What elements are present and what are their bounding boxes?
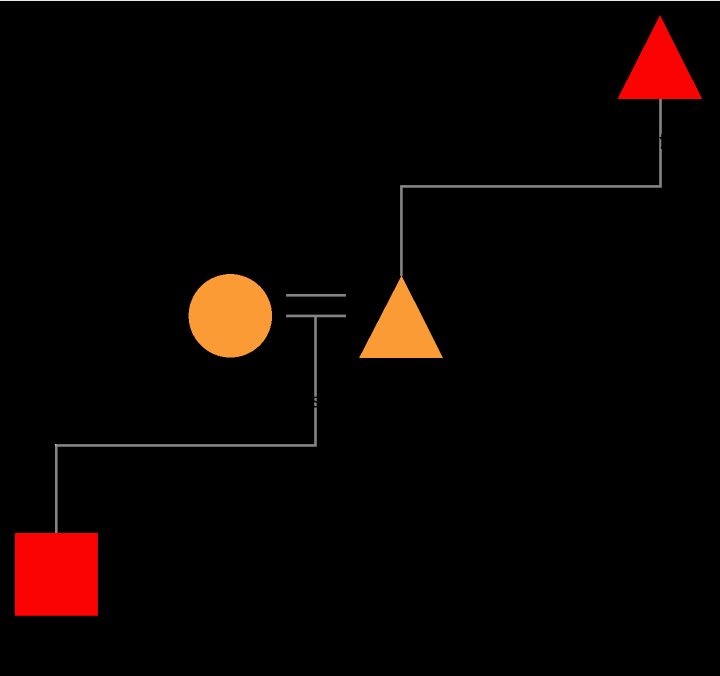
red triangle node (top right)	[618, 15, 703, 99]
edge label E1 (black text occlusion over wire)	[659, 134, 663, 149]
edge label E2: letter s (black, occluding wire)	[312, 397, 321, 408]
orange triangle node (middle)	[359, 276, 443, 358]
orange circle node	[189, 274, 273, 358]
red square node (bottom left)	[15, 533, 98, 616]
wire E1: red triangle to orange triangle	[401, 99, 660, 276]
wire E2: union junction to red square	[56, 316, 315, 533]
top border line	[0, 0, 720, 1]
double line (union) between circle and orange triangle	[286, 294, 346, 297]
wire corner highlight	[55, 444, 57, 446]
